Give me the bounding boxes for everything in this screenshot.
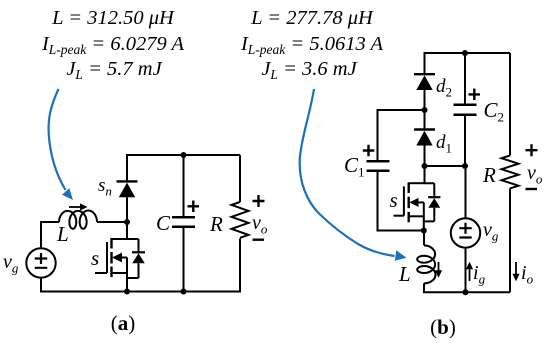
wire R column (b) — [509, 53, 511, 292]
wire drain vertical (b) — [424, 166, 426, 183]
node junction bottom rail C (a) — [181, 289, 187, 295]
plus sign C (a) — [188, 201, 200, 213]
diode s_n — [117, 181, 138, 197]
wire top rail (b) — [425, 52, 511, 54]
blue callout arrow (b) — [300, 89, 395, 256]
wire left column vg — [40, 221, 42, 293]
source stub (b) — [409, 215, 424, 217]
wire node to C2 bottom row — [425, 165, 466, 167]
svg-text:R: R — [482, 163, 496, 187]
node top rail C2 — [462, 50, 468, 56]
wire inductor column (b) — [423, 231, 425, 293]
channel bars (b) — [408, 183, 410, 223]
current arrow beside L (b) — [438, 262, 440, 272]
node junction bottom rail s (a) — [124, 289, 130, 295]
wire bottom rail (b) — [423, 291, 510, 293]
svg-text:(b): (b) — [430, 315, 456, 339]
wire d1 cathode — [424, 110, 426, 130]
svg-text:R: R — [209, 212, 223, 236]
svg-text:L: L — [56, 222, 69, 246]
node junction top rail C (a) — [181, 152, 187, 158]
source vertical — [126, 258, 128, 292]
wire top rail (a) — [127, 154, 240, 156]
MOSFET s (a) — [95, 238, 127, 292]
node source-L (b) — [421, 228, 427, 234]
wire d2 column upper — [424, 52, 426, 74]
wire d2 anode to node — [424, 90, 426, 110]
node C2 bottom — [462, 163, 468, 169]
blue arrowhead (a) — [62, 188, 73, 200]
resistor R (a) — [232, 202, 249, 238]
capacitor C (a) — [172, 217, 195, 227]
svg-text:L: L — [398, 262, 411, 286]
current arrow i_o — [515, 262, 517, 276]
resistor R (b) — [502, 156, 519, 189]
svg-text:s: s — [91, 246, 99, 270]
capacitor C1 — [367, 161, 390, 171]
svg-text:s: s — [390, 188, 398, 212]
plus sign vo (b) — [526, 144, 538, 156]
wire inductor row left — [41, 221, 59, 223]
source stub — [112, 272, 128, 274]
inductor L (b) — [417, 245, 435, 283]
body arrow (b) — [409, 198, 418, 207]
node d1-C2-drain — [422, 163, 428, 169]
plus sign C2 — [469, 89, 481, 101]
gate lead (b) — [394, 215, 404, 217]
diode d1 — [414, 130, 435, 146]
svg-text:C: C — [156, 211, 171, 235]
svg-text:(a): (a) — [111, 311, 136, 335]
wire s_n column upper — [126, 154, 128, 181]
wire C1 column — [377, 109, 379, 232]
wire C2 column — [464, 52, 466, 166]
wire node to C1 top — [378, 109, 425, 111]
svg-text:L = 277.78 μH: L = 277.78 μH — [250, 7, 374, 29]
current arrow above L (a) — [69, 206, 82, 208]
blue callout arrow (a) — [49, 89, 66, 190]
node junction L/s_n/drain (a) — [124, 219, 130, 225]
wire bottom rail (a) — [40, 291, 241, 293]
svg-text:L = 312.50 μH: L = 312.50 μH — [51, 7, 175, 29]
wire inductor row right — [97, 221, 127, 223]
voltage source v_g (b) — [451, 218, 480, 247]
voltage source v_g (a) — [26, 248, 55, 277]
drain stub — [112, 238, 128, 240]
node d2-d1-C1 — [422, 107, 428, 113]
gate line — [106, 242, 108, 273]
blue arrowhead (b) — [395, 250, 407, 260]
body diode (b) — [424, 183, 441, 221]
body diode (a) — [127, 239, 145, 278]
current arrow i_g — [469, 268, 471, 282]
plus sign C1 — [363, 145, 375, 157]
body stub (b) — [416, 201, 424, 203]
wire vg column upper — [465, 166, 467, 218]
wire C column (a) — [183, 155, 185, 292]
minus sign vo (b) — [526, 188, 538, 190]
MOSFET s (b) — [394, 183, 425, 232]
gate lead — [95, 272, 107, 274]
source vertical (b) — [423, 202, 425, 231]
channel bars — [110, 238, 112, 277]
wire C1 bottom to source node — [378, 230, 424, 232]
wire s_n anode to node — [126, 197, 128, 240]
capacitor C2 — [454, 105, 477, 115]
plus sign vo (a) — [253, 195, 265, 207]
node bottom rail vg (b) — [463, 289, 469, 295]
minus sign vo (a) — [253, 238, 265, 240]
drain stub (b) — [409, 182, 425, 184]
body arrow (a) — [112, 253, 122, 263]
wire d1 anode to node — [424, 146, 426, 167]
gate line (b) — [403, 186, 405, 215]
wire vg column lower — [465, 248, 467, 293]
inductor L (a) — [59, 211, 97, 229]
wire R column (a) — [239, 155, 241, 292]
body stub — [119, 257, 127, 259]
diode d2 — [414, 74, 435, 90]
